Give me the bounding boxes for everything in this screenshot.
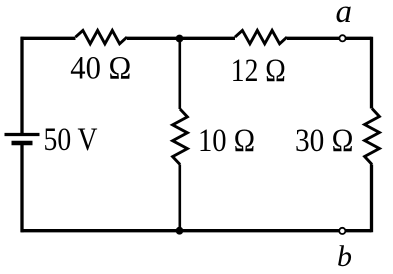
svg-text:30 Ω: 30 Ω xyxy=(295,123,354,159)
resistor R 40ohm zigzag xyxy=(76,30,128,43)
resistor R 12ohm zigzag xyxy=(235,30,287,43)
svg-text:10 Ω: 10 Ω xyxy=(198,123,255,159)
svg-text:a: a xyxy=(336,0,353,30)
wire: top right segment to corner xyxy=(287,37,372,40)
svg-text:40 Ω: 40 Ω xyxy=(70,51,131,87)
wire: left vertical upper (to battery) xyxy=(20,37,23,135)
junction node bottom xyxy=(176,227,184,235)
svg-text:b: b xyxy=(337,240,352,273)
wire: bottom horizontal xyxy=(21,229,372,232)
wire: right vertical upper segment xyxy=(370,37,373,109)
wire: top-left horizontal segment xyxy=(21,37,76,40)
battery V1 long plate xyxy=(5,133,40,136)
wire: top middle segment xyxy=(127,37,235,40)
terminal b open circle xyxy=(339,228,345,234)
svg-text:50 V: 50 V xyxy=(44,122,98,158)
wire: left vertical lower (from battery) xyxy=(20,143,23,232)
terminal a open circle xyxy=(339,35,345,41)
wire: right vertical lower segment xyxy=(370,165,373,233)
junction node top xyxy=(176,35,184,43)
resistor R 30ohm zigzag xyxy=(365,109,380,165)
svg-text:12 Ω: 12 Ω xyxy=(231,53,286,89)
resistor R 10ohm zigzag xyxy=(173,109,188,165)
wire: middle branch lower xyxy=(179,165,182,231)
battery V1 short plate xyxy=(12,141,33,145)
wire: middle branch upper xyxy=(179,38,182,109)
